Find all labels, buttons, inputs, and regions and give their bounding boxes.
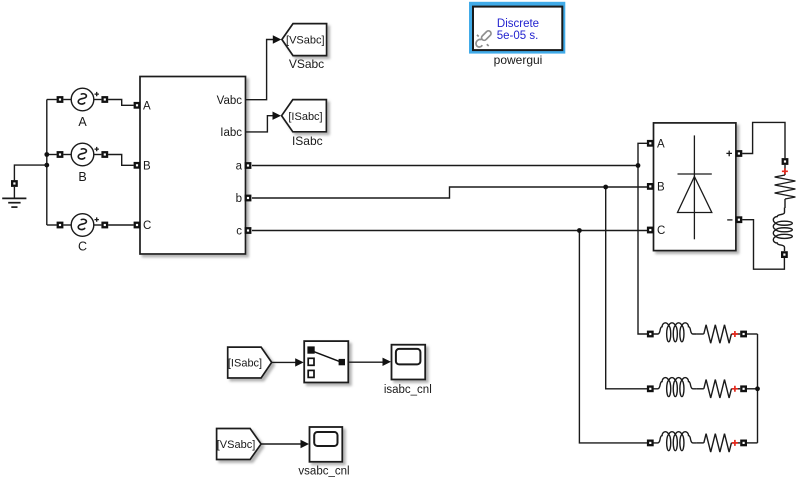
powergui block [469, 2, 565, 54]
plus marker [726, 151, 732, 157]
wire left bus [46, 100, 48, 226]
RL branch 3 [647, 432, 758, 452]
svg-text:Discrete: Discrete [497, 18, 539, 30]
svg-text:[VSabc]: [VSabc] [286, 35, 325, 47]
svg-text:[ISabc]: [ISabc] [288, 111, 322, 123]
manual switch [304, 341, 348, 382]
from tag VSabc [217, 429, 262, 460]
wire from ISabc to switch [272, 361, 296, 363]
junction c [577, 228, 582, 233]
svg-text:B: B [78, 170, 86, 184]
wire switch to scope [348, 361, 383, 363]
junction bus-B [44, 152, 49, 157]
junction bus-ground [44, 163, 49, 168]
wire c-line [252, 230, 647, 232]
svg-text:B: B [657, 182, 665, 194]
svg-text:ISabc: ISabc [292, 134, 323, 148]
scope isabc_cnl [392, 345, 426, 380]
svg-text:[ISabc]: [ISabc] [228, 358, 262, 370]
wire riser phase b to branch 2 [606, 187, 647, 389]
diode D1 [678, 135, 712, 239]
wire bus to source C [47, 224, 57, 226]
svg-text:Vabc: Vabc [217, 95, 243, 107]
from tag ISabc [228, 347, 272, 378]
wire Vabc to goto VSabc [246, 40, 274, 100]
wire neutral bus [757, 334, 759, 443]
junction neutral [755, 386, 760, 391]
goto tag VSabc [282, 24, 327, 56]
svg-text:C: C [143, 220, 151, 232]
scope vsabc_cnl [310, 427, 343, 462]
wire source C to port C [108, 224, 134, 226]
RL branch 2 [647, 378, 758, 398]
svg-text:A: A [657, 139, 665, 151]
svg-text:c: c [236, 226, 242, 238]
wire source B to port B [108, 155, 134, 166]
svg-text:b: b [236, 193, 242, 205]
series RLC load [773, 158, 795, 258]
goto tag ISabc [282, 100, 327, 132]
svg-text:[VSabc]: [VSabc] [217, 439, 256, 451]
universal bridge block [647, 123, 742, 251]
RL branch 1 [647, 323, 758, 343]
AC voltage source C [57, 214, 109, 237]
wire from VSabc to scope [261, 443, 301, 445]
minus marker [727, 219, 732, 221]
ground [2, 180, 26, 207]
wire load to bridge - [742, 220, 784, 270]
svg-text:vsabc_cnl: vsabc_cnl [298, 465, 349, 477]
wire a-line [252, 165, 638, 167]
svg-text:B: B [143, 161, 151, 173]
wire bus to source A [47, 99, 57, 101]
three-phase V-I measurement block U1 [134, 77, 252, 255]
svg-text:A: A [143, 101, 151, 113]
wire bus to source B [47, 154, 57, 156]
svg-text:Iabc: Iabc [220, 127, 242, 139]
wire bridge + to load [742, 122, 785, 158]
broken link icon [476, 30, 492, 47]
wire source A to port A [108, 100, 134, 106]
wire b-line [252, 187, 647, 198]
AC voltage source B [57, 143, 109, 166]
wire riser phase a to bridge A and branch 1 [638, 143, 647, 334]
svg-text:A: A [78, 115, 87, 129]
junction a [636, 163, 641, 168]
wire riser phase c to branch 3 [579, 231, 647, 443]
svg-text:a: a [236, 161, 243, 173]
svg-text:powergui: powergui [494, 53, 543, 67]
resistor R load [775, 175, 796, 199]
svg-text:VSabc: VSabc [289, 57, 324, 71]
svg-text:isabc_cnl: isabc_cnl [384, 384, 432, 396]
svg-text:C: C [657, 225, 665, 237]
junction b [603, 185, 608, 190]
inductor L load [773, 208, 792, 252]
svg-text:5e-05 s.: 5e-05 s. [497, 30, 539, 42]
wire ground to bus [14, 165, 46, 180]
svg-text:C: C [78, 240, 87, 254]
wire Iabc to goto ISabc [246, 116, 274, 132]
AC voltage source A [57, 88, 109, 111]
